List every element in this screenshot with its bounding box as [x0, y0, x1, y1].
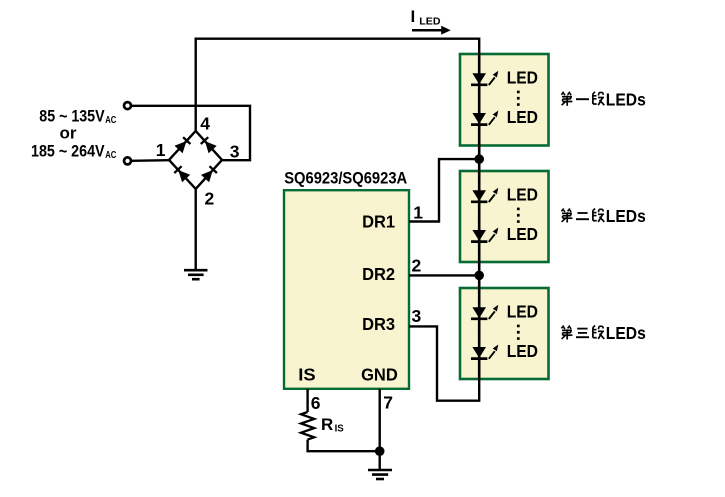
label 185 ~ 264VAC	[31, 142, 116, 162]
svg-text:IS: IS	[335, 424, 344, 435]
LED string 1 wire	[478, 55, 481, 172]
svg-text:3: 3	[412, 306, 422, 326]
label LED (bottom, string 2)	[507, 224, 538, 244]
svg-text:R: R	[321, 415, 333, 434]
bridge diode D2 (node 3 to node 4)	[196, 131, 222, 160]
LED symbol top in string 3	[471, 305, 498, 319]
pin number 6	[311, 393, 321, 413]
svg-text:LED: LED	[507, 301, 538, 321]
AC input terminal top	[124, 102, 131, 109]
AC input terminal bottom	[124, 157, 131, 164]
wire bridge node 2 to ground	[194, 189, 196, 270]
svg-text:DR2: DR2	[362, 264, 395, 284]
LED symbol bottom in string 2	[471, 228, 498, 242]
dashed wire between LEDs in string 1	[478, 89, 481, 110]
LED symbol top in string 1	[471, 71, 498, 85]
svg-text:or: or	[60, 124, 77, 143]
wire top rail from bridge node 4 to LED string top	[196, 39, 480, 131]
svg-text:1: 1	[156, 140, 166, 160]
pin label DR3	[362, 314, 395, 334]
svg-text:I: I	[411, 7, 416, 26]
resistor R_IS	[301, 412, 314, 440]
svg-text:2: 2	[205, 189, 215, 209]
current arrow I_LED	[412, 26, 451, 35]
LED symbol bottom in string 1	[471, 111, 498, 125]
label LED (top, string 1)	[507, 67, 538, 87]
label 第三段LEDs for string 3	[561, 323, 646, 343]
svg-text:LEDs: LEDs	[606, 323, 646, 343]
label R_IS	[321, 415, 344, 435]
LED string box 3	[460, 288, 549, 379]
LED string box 1	[460, 54, 549, 146]
pin number 1	[413, 202, 423, 222]
IC U1 SQ6923/SQ6923A body	[284, 190, 409, 389]
svg-text:IS: IS	[298, 364, 315, 384]
svg-text:3: 3	[230, 141, 240, 161]
node 1 label	[156, 140, 166, 160]
wire from bottom AC terminal to bridge node 1	[132, 159, 170, 162]
svg-text:GND: GND	[361, 364, 398, 384]
label LED (top, string 3)	[507, 301, 538, 321]
svg-text:4: 4	[200, 114, 210, 134]
svg-text:AC: AC	[105, 115, 116, 126]
node 2 label	[205, 189, 215, 209]
bridge diode D3 (node 2 to node 1)	[169, 160, 196, 189]
current label I_LED	[411, 7, 441, 27]
LED symbol top in string 2	[471, 188, 498, 202]
label 第二段LEDs for string 2	[561, 206, 646, 226]
node 4 label	[200, 114, 210, 134]
svg-text:LED: LED	[507, 184, 538, 204]
wire GND pin 7 to ground	[379, 389, 381, 470]
wire from top AC terminal to bridge node 3	[132, 106, 251, 160]
LED string 3 wire	[478, 288, 481, 380]
label LED (top, string 2)	[507, 184, 538, 204]
label LED (bottom, string 3)	[507, 341, 538, 361]
svg-text:SQ6923/SQ6923A: SQ6923/SQ6923A	[284, 169, 407, 187]
LED string box 2	[460, 171, 549, 262]
bridge diode D1 (node 1 to node 4)	[169, 131, 196, 160]
wire IS pin to resistor	[306, 389, 308, 412]
svg-text:AC: AC	[105, 150, 116, 161]
label 第一段LEDs for string 1	[561, 89, 646, 109]
wire resistor bottom to ground junction	[308, 440, 380, 452]
pin label DR2	[362, 264, 395, 284]
node 3 label	[230, 141, 240, 161]
wire DR1 pin 1 to junction A	[409, 159, 475, 221]
LED string 2 wire	[478, 171, 481, 289]
svg-text:LED: LED	[507, 67, 538, 87]
dashed wire between LEDs in string 2	[478, 206, 481, 227]
pin label GND	[361, 364, 398, 384]
junction A dot (between LED string 1 and 2)	[474, 154, 484, 164]
ellipsis dots in string 3	[517, 325, 520, 344]
label LED (bottom, string 1)	[507, 107, 538, 127]
svg-text:185 ~ 264V: 185 ~ 264V	[31, 142, 105, 161]
svg-text:6: 6	[311, 393, 321, 413]
dashed wire between LEDs in string 3	[478, 323, 481, 344]
pin label DR1	[362, 212, 395, 232]
LED symbol bottom in string 3	[471, 345, 498, 359]
ground symbol at GND	[368, 470, 392, 479]
svg-text:2: 2	[412, 255, 422, 275]
svg-text:LED: LED	[507, 341, 538, 361]
wire DR2 pin 2 to junction B	[409, 274, 479, 276]
IC U1 label SQ6923/SQ6923A	[284, 169, 407, 187]
label 85 ~ 135VAC	[39, 107, 116, 127]
wire DR3 pin 3 to LED string 3 bottom	[409, 326, 479, 400]
ellipsis dots in string 2	[517, 208, 520, 227]
svg-text:LED: LED	[507, 107, 538, 127]
junction B dot (between LED string 2 and 3)	[474, 271, 484, 281]
svg-text:LEDs: LEDs	[606, 206, 646, 226]
pin number 3	[412, 306, 422, 326]
bridge diode D4 (node 2 to node 3)	[196, 160, 222, 189]
svg-text:LED: LED	[507, 224, 538, 244]
svg-text:1: 1	[413, 202, 423, 222]
ellipsis dots in string 1	[517, 91, 520, 110]
svg-text:DR3: DR3	[362, 314, 395, 334]
pin number 7	[383, 392, 393, 412]
svg-text:7: 7	[383, 392, 393, 412]
label or	[60, 124, 77, 143]
pin number 2	[412, 255, 422, 275]
svg-text:LEDs: LEDs	[606, 89, 646, 109]
pin label IS	[298, 364, 315, 384]
svg-text:LED: LED	[419, 16, 441, 28]
ground junction dot	[375, 446, 385, 456]
svg-text:DR1: DR1	[362, 212, 395, 232]
ground symbol below bridge	[184, 270, 208, 279]
